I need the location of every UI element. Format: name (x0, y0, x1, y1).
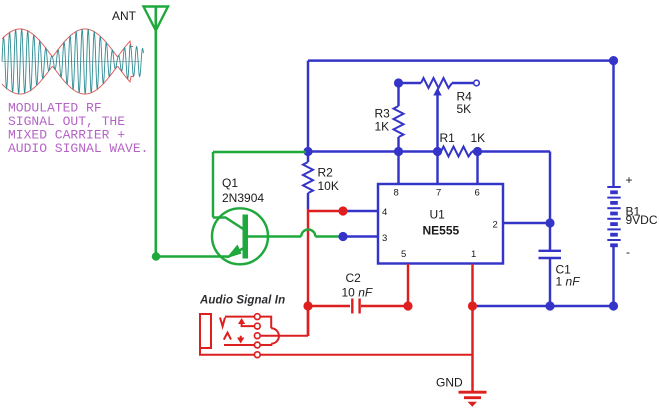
audio jack sleeve wire down and right (200, 348, 473, 355)
junction node R3 top / R4 left (394, 78, 403, 87)
wire pin3 green segment after hop (315, 235, 343, 237)
svg-text:5K: 5K (457, 102, 472, 116)
wire R2 bottom red segment down to jack (307, 209, 309, 336)
junction node pin3 (338, 232, 347, 241)
svg-text:R2: R2 (318, 166, 334, 180)
junction node battery bottom rail (609, 301, 618, 310)
svg-text:C2: C2 (346, 271, 362, 285)
junction node antenna / emitter (152, 252, 160, 260)
svg-text:5: 5 (401, 249, 406, 260)
audio jack terminal circle 5 (254, 352, 260, 358)
resistor R3 bottom lead (397, 137, 399, 152)
svg-text:GND: GND (436, 376, 463, 390)
potentiometer R4 left lead (399, 82, 422, 84)
junction node battery top rail (609, 56, 618, 65)
resistor R2 zigzag (303, 162, 313, 193)
capacitor C1 bottom lead (549, 258, 551, 306)
wire battery bottom lead (612, 247, 614, 306)
junction node pin2 / C1 (545, 218, 554, 227)
audio jack tip contact row1 (225, 316, 255, 318)
junction node C2 left / jack (303, 301, 312, 310)
audio jack switch down arrow (237, 338, 244, 344)
wire from top rail down to R2 top node (307, 61, 309, 162)
audio jack output wire up to C2 node (307, 306, 309, 336)
svg-text:2N3904: 2N3904 (222, 191, 264, 205)
svg-text:ANT: ANT (112, 9, 137, 23)
audio jack ring spring lambda (224, 333, 231, 340)
junction node C1 bottom rail (545, 301, 554, 310)
capacitor C2 left wire (308, 305, 350, 307)
wire mid rail y=151.5 left part (308, 150, 441, 152)
IC U1 NE555 body (378, 184, 503, 264)
svg-text:4: 4 (382, 207, 387, 218)
wire pin5 red stub (407, 264, 409, 306)
svg-text:8: 8 (394, 188, 399, 199)
audio jack row3 output wire (260, 335, 308, 337)
junction node wiper / pin7 (433, 147, 442, 156)
wire pin3 blue segment (343, 235, 378, 237)
svg-text:+: + (626, 173, 633, 187)
audio jack row4 (224, 344, 255, 346)
svg-text:1: 1 (471, 249, 476, 260)
transistor Q1 emitter diagonal (228, 247, 246, 257)
wire collector up to green rail (212, 152, 214, 218)
resistor R3 zigzag (394, 106, 404, 137)
capacitor C2 left plate (351, 299, 353, 314)
svg-text:9VDC: 9VDC (626, 213, 658, 227)
junction node R2 top / collector (303, 147, 312, 156)
audio jack terminal circle 3 (254, 333, 260, 339)
wire pin4 blue segment (348, 210, 378, 212)
svg-text:NE555: NE555 (423, 224, 460, 238)
audio jack bracket bottom to row4 (260, 344, 271, 345)
junction node pin4 (338, 206, 347, 215)
svg-text:2: 2 (493, 220, 498, 231)
svg-text:10K: 10K (318, 179, 339, 193)
capacitor C2 right wire (361, 305, 408, 307)
svg-text:6: 6 (475, 188, 480, 199)
svg-text:-: - (626, 245, 630, 259)
potentiometer R4 open terminal circle (474, 80, 480, 86)
wire mid rail to pin2 drop (549, 152, 551, 251)
modulated RF waveform red envelope top (2, 29, 133, 56)
capacitor C2 right plate (358, 299, 360, 314)
modulated RF waveform red envelope bottom (2, 67, 133, 94)
battery B1 plates (607, 187, 620, 247)
audio jack switch up arrow stem and row2 (242, 323, 255, 326)
svg-text:AUDIO SIGNAL WAVE.: AUDIO SIGNAL WAVE. (8, 141, 148, 156)
svg-text:7: 7 (436, 188, 441, 199)
wire top supply rail (308, 59, 614, 61)
svg-text:Audio Signal In: Audio Signal In (199, 295, 285, 307)
potentiometer R4 wiper wire down to pin 7 (436, 93, 438, 184)
resistor R1 zigzag (441, 147, 472, 157)
antenna ANT symbol triangle (144, 7, 169, 31)
audio jack terminal circle 4 (254, 342, 260, 348)
potentiometer R4 wiper arrow head (433, 88, 441, 96)
audio jack switch up arrow (238, 318, 245, 324)
audio jack switch down arrow stem (240, 336, 242, 338)
svg-text:10 nF: 10 nF (342, 286, 373, 300)
wire pin6 stub (476, 152, 478, 185)
svg-text:U1: U1 (430, 208, 446, 222)
wire green collector rail to R2 node (213, 151, 306, 153)
capacitor C1 top plate (539, 250, 562, 252)
audio jack terminal circle 2 (254, 323, 260, 329)
wire mid rail y=151.5 right part (472, 150, 550, 152)
transistor Q1 emitter arrow (226, 245, 242, 259)
svg-text:Q1: Q1 (222, 176, 238, 190)
transistor Q1 base bar (243, 215, 249, 259)
capacitor C1 bottom plate (539, 257, 562, 259)
audio jack row1 right to bracket (260, 317, 271, 329)
audio jack terminal circle 1 (254, 314, 260, 320)
wire pin2 stub (503, 222, 550, 224)
svg-text:1 nF: 1 nF (556, 275, 581, 289)
junction node R3 bottom / pin8 (394, 147, 403, 156)
resistor R3 top lead (397, 83, 399, 106)
wire battery top lead (612, 61, 614, 186)
wire pin3 hop over red wire (301, 230, 315, 237)
wire emitter to antenna (156, 255, 228, 257)
svg-text:3: 3 (382, 233, 387, 244)
svg-text:R1: R1 (440, 131, 456, 145)
modulated RF waveform teal carrier (2, 29, 143, 94)
antenna vertical wire (155, 7, 158, 257)
svg-text:1K: 1K (375, 120, 390, 134)
junction node R1 right / pin6 (473, 147, 482, 156)
audio jack sleeve rectangle (200, 314, 211, 348)
transistor Q1 circle (212, 208, 268, 264)
svg-text:R3: R3 (375, 107, 391, 121)
wire bottom rail blue part (477, 305, 614, 307)
wire pin1 red stub down to ground (471, 264, 473, 392)
wire R2 bottom blue segment (307, 193, 309, 209)
ground symbol (459, 392, 487, 407)
junction node pin1 / ground rail (468, 301, 477, 310)
audio jack bracket hop arc (271, 328, 279, 343)
svg-text:1K: 1K (471, 131, 486, 145)
potentiometer R4 right lead (452, 82, 474, 84)
transistor Q1 collector diagonal (213, 218, 244, 230)
wire pin4 red segment (308, 210, 348, 212)
wire pin3 green segment from transistor base (247, 235, 301, 237)
potentiometer R4 zigzag (421, 78, 452, 88)
modulated RF waveform centerline (2, 61, 140, 63)
audio jack tip spring V (220, 318, 225, 327)
wire pin8 stub (397, 152, 399, 185)
junction node C2 right / pin5 (403, 301, 412, 310)
